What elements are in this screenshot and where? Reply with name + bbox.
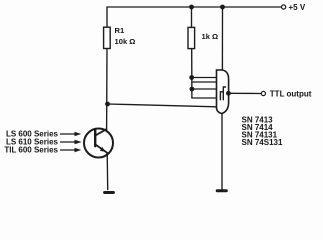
wire rail to gate Vcc <box>221 7 223 70</box>
svg-text:1k Ω: 1k Ω <box>202 32 219 41</box>
svg-text:SN 74S131: SN 74S131 <box>242 138 283 147</box>
wire gate output <box>229 92 262 94</box>
svg-text:R1: R1 <box>115 26 125 35</box>
light arrow 2 <box>61 141 75 143</box>
resistor 1k <box>188 27 195 48</box>
node gate input 1 <box>189 75 194 80</box>
op-amp U1 Schmitt NAND gate body <box>217 70 229 114</box>
node 1k rail junction <box>189 5 194 10</box>
wire emitter to ground <box>106 153 109 190</box>
transistor Q1 collector stroke <box>96 129 107 135</box>
wire gate GND <box>221 114 223 190</box>
light arrow 3 <box>61 149 75 151</box>
node gate input 3 <box>190 87 195 92</box>
wire +5V top rail <box>107 7 282 30</box>
transistor Q1 emitter stroke with arrow <box>96 145 108 153</box>
wire gate input 3 <box>192 88 217 90</box>
wire rail to 1k resistor <box>191 7 193 27</box>
ground right <box>217 189 226 192</box>
resistor R1 <box>104 27 111 48</box>
ground left <box>105 191 114 194</box>
+5 V terminal <box>282 5 286 9</box>
TTL output terminal <box>261 91 265 95</box>
transistor Q1 phototransistor circle <box>84 129 113 158</box>
node collector junction <box>105 102 110 107</box>
svg-text:TTL output: TTL output <box>270 89 312 98</box>
svg-text:10k Ω: 10k Ω <box>115 37 136 46</box>
node gate output <box>226 91 231 96</box>
wire collector to gate input <box>108 104 217 107</box>
transistor Q1 base bar <box>94 130 96 146</box>
svg-text:+5 V: +5 V <box>289 3 306 12</box>
light arrow 1 <box>61 133 75 135</box>
node Vcc rail junction <box>220 5 225 10</box>
wire gate input 1 <box>192 77 217 79</box>
hysteresis symbol inside U1 <box>220 87 225 100</box>
wire gate input 4 <box>192 97 217 99</box>
wire gate input 2 <box>192 81 217 83</box>
wire R1 to collector <box>106 49 108 130</box>
svg-text:TIL 600 Series: TIL 600 Series <box>4 146 58 155</box>
wire 1k resistor to inputs <box>191 49 193 98</box>
